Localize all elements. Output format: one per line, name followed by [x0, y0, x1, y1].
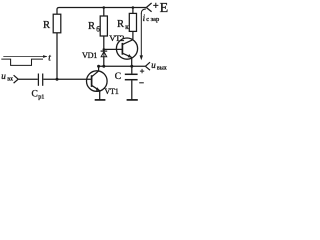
- node junction dot (VT1 collector): [97, 65, 100, 68]
- resistor R (left, base resistor of VT1): [53, 14, 61, 33]
- wire Cp1 to VT1 base: [43, 78, 91, 80]
- current arrow i_c zar hook: [141, 9, 146, 14]
- resistor Rк: [129, 13, 136, 31]
- svg-text:б: б: [96, 25, 100, 33]
- transistor VT2 base bar: [121, 43, 123, 55]
- svg-text:C: C: [115, 72, 121, 82]
- wire R_b riser from rail: [103, 8, 105, 17]
- node junction dot (rail / Rб): [103, 6, 106, 9]
- svg-text:R: R: [117, 19, 124, 30]
- ground (right, under C): [127, 99, 138, 101]
- ground (left, VT1 emitter): [95, 99, 106, 101]
- wire C bottom to ground: [131, 80, 133, 99]
- transistor VT2 circle: [116, 38, 137, 59]
- transistor VT2 emitter with arrow: [122, 53, 131, 57]
- svg-text:C: C: [32, 90, 38, 100]
- transistor VT1 emitter with arrow: [92, 85, 100, 90]
- svg-text:с зар: с зар: [146, 16, 159, 23]
- svg-text:u: u: [151, 60, 156, 70]
- node input terminal arrow u_vh: [14, 75, 19, 83]
- waveform axis with arrow: [3, 56, 47, 58]
- node output terminal arrow u_vyh: [145, 62, 150, 70]
- label +E: [153, 3, 158, 8]
- wire top supply rail: [57, 8, 146, 15]
- waveform input pulse trace: [1, 59, 43, 65]
- svg-text:р1: р1: [38, 93, 44, 100]
- current arrow i_c zar head: [140, 55, 143, 60]
- wire Rб bottom to VD1 node: [103, 36, 105, 51]
- node junction dot (VD1 anode on output wire): [102, 65, 105, 68]
- label plus (C polarity): [140, 69, 144, 73]
- capacitor Cр1 plates: [37, 74, 39, 86]
- wire input to Cp1: [18, 78, 38, 80]
- svg-text:вых: вых: [157, 66, 167, 72]
- wire R bottom to input node: [56, 33, 58, 79]
- wire output bus (VT1 collector to output terminal): [99, 65, 146, 67]
- diode VD1: [101, 50, 108, 52]
- capacitor C plates: [125, 73, 138, 75]
- wire VD1 cathode to VT2 base: [104, 48, 123, 50]
- wire C top stub: [131, 66, 133, 73]
- svg-text:t: t: [48, 53, 51, 63]
- current arrow i_c zar shaft: [140, 14, 142, 57]
- svg-text:u: u: [1, 71, 6, 81]
- svg-text:VT2: VT2: [109, 33, 124, 43]
- svg-text:к: к: [125, 23, 129, 31]
- node junction dot (C / VT2 emitter on output wire): [130, 65, 133, 68]
- transistor VT1 collector to output bus: [92, 66, 99, 77]
- wire Rк bottom to VT2 collector: [132, 31, 134, 39]
- label minus (C polarity): [139, 82, 144, 84]
- svg-text:R: R: [88, 21, 95, 32]
- wire Rк riser from rail: [132, 8, 134, 14]
- resistor Rб: [100, 16, 107, 36]
- node junction dot (rail / Rк): [132, 6, 135, 9]
- svg-text:вх: вх: [7, 76, 13, 82]
- svg-text:E: E: [160, 1, 169, 16]
- node junction dot (R / input / VT1 base): [56, 78, 59, 81]
- svg-text:i: i: [143, 13, 146, 23]
- node +E terminal arrow: [146, 3, 151, 12]
- svg-text:R: R: [43, 20, 50, 31]
- transistor VT2 collector: [122, 40, 132, 45]
- svg-text:VT1: VT1: [104, 87, 118, 96]
- transistor VT1 base bar: [91, 75, 93, 87]
- svg-text:VD1: VD1: [82, 51, 97, 60]
- node junction dot (Rб / VD1 / VT2 base): [103, 48, 106, 51]
- transistor VT1 circle: [87, 71, 108, 92]
